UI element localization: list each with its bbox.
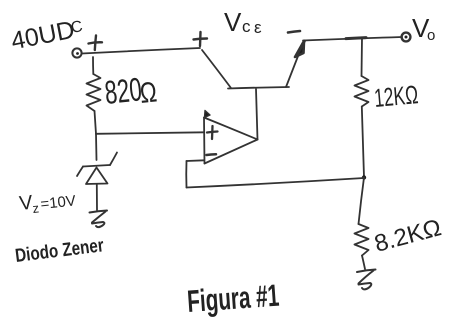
wire right rail lower bbox=[359, 178, 365, 225]
svg-text:V: V bbox=[224, 7, 242, 37]
wire noninverting input bbox=[96, 132, 204, 134]
wire right rail upper bbox=[361, 38, 364, 76]
plus sign VCE bbox=[194, 32, 208, 46]
plus sign at Vin bbox=[89, 36, 103, 51]
svg-text:8.2KΩ: 8.2KΩ bbox=[372, 214, 445, 258]
ground left bbox=[90, 211, 108, 228]
label Vo bbox=[412, 13, 435, 44]
svg-text:ε: ε bbox=[254, 18, 262, 37]
wire top right bbox=[303, 37, 402, 41]
wire op-amp output to base bbox=[256, 89, 258, 140]
transistor Q1 bbox=[202, 41, 305, 89]
svg-text:Figura #1: Figura #1 bbox=[186, 278, 280, 319]
wire inverting input vertical bbox=[185, 161, 187, 188]
wire left rail middle bbox=[95, 111, 97, 134]
label Vz=10V bbox=[18, 192, 76, 216]
svg-text:C: C bbox=[70, 18, 85, 37]
minus sign VCE bbox=[288, 31, 300, 33]
wire to ground right bbox=[362, 256, 365, 270]
resistor 820 bbox=[87, 74, 101, 111]
minus sign op-amp input bbox=[207, 153, 217, 156]
wire left rail top bbox=[92, 57, 94, 74]
resistor 8.2K bbox=[355, 224, 369, 256]
node junction top right bbox=[346, 38, 366, 39]
svg-text:c: c bbox=[242, 17, 251, 36]
wire right rail middle bbox=[362, 107, 364, 178]
svg-text:Diodo Zener: Diodo Zener bbox=[14, 235, 105, 267]
wire zener to ground bbox=[96, 184, 98, 210]
op-amp U1 bbox=[204, 111, 258, 164]
svg-text:Ω: Ω bbox=[138, 77, 158, 110]
wire feedback bbox=[187, 178, 365, 188]
label VCE bbox=[224, 7, 262, 37]
wire top left bbox=[82, 48, 200, 54]
label 40UDC bbox=[9, 16, 84, 56]
svg-text:o: o bbox=[427, 27, 435, 44]
terminal Vin bbox=[72, 48, 81, 57]
ground right bbox=[357, 270, 376, 290]
plus sign op-amp input bbox=[207, 126, 218, 139]
resistor 12K bbox=[355, 76, 369, 107]
svg-text:z: z bbox=[32, 200, 40, 216]
svg-text:12KΩ: 12KΩ bbox=[373, 81, 419, 114]
label 820 bbox=[103, 71, 158, 111]
svg-text:820: 820 bbox=[103, 71, 144, 111]
wire inverting input horizontal bbox=[187, 159, 205, 162]
wire left rail lower bbox=[95, 134, 98, 160]
terminal Vo bbox=[402, 33, 411, 42]
svg-text:=10V: =10V bbox=[40, 192, 77, 213]
zener diode D1 bbox=[77, 153, 117, 185]
node feedback junction bbox=[362, 175, 366, 179]
svg-text:40UD: 40UD bbox=[9, 16, 77, 56]
